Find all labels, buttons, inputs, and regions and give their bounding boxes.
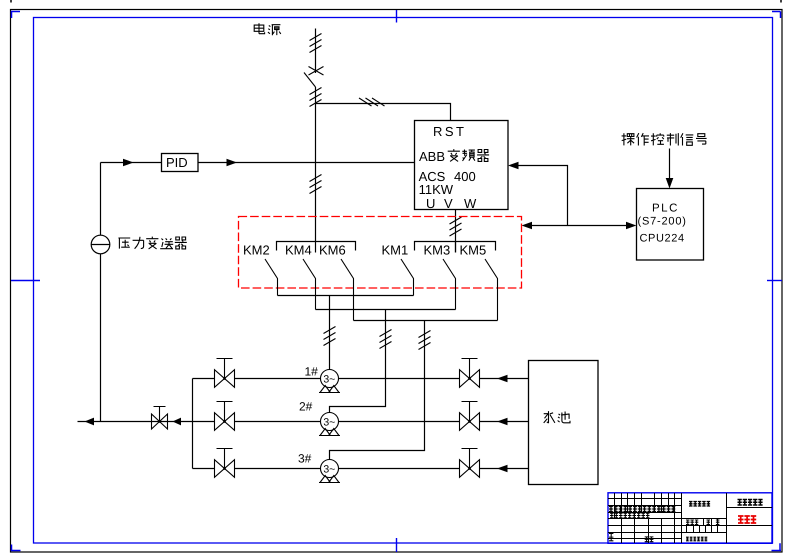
wire to pump3 motor	[330, 321, 425, 460]
pump 3 motor	[319, 460, 340, 483]
contactor KM1 contact	[401, 259, 414, 296]
PLC U2 box	[637, 189, 704, 261]
bus pump3	[354, 320, 498, 322]
water tank	[529, 361, 599, 485]
inverter U1 box	[415, 121, 509, 210]
valve outlet	[152, 407, 168, 430]
wire control signal to PLC	[669, 149, 671, 181]
power feeder wire	[315, 29, 317, 253]
svg-text:ABB: ABB	[419, 149, 445, 164]
svg-text:RST: RST	[433, 124, 467, 139]
piping row2	[193, 421, 529, 423]
pump 2 motor	[319, 413, 340, 436]
svg-text:KM5: KM5	[460, 243, 487, 258]
pressure transmitter symbol	[91, 235, 110, 254]
svg-text:400: 400	[454, 169, 476, 184]
left col small text	[609, 534, 613, 541]
svg-text:KM2: KM2	[243, 243, 270, 258]
valve row1 right	[460, 359, 480, 388]
svg-text:(S7-200): (S7-200)	[638, 216, 687, 228]
3-phase hatch on feeder above dashed box	[310, 175, 322, 194]
svg-text:CPU224: CPU224	[640, 233, 685, 245]
bus pump1	[278, 295, 414, 297]
label 压力变送器	[118, 238, 130, 249]
stage mark cells text	[686, 520, 698, 525]
wire inverter output	[455, 210, 457, 253]
svg-text:KM4: KM4	[285, 243, 312, 258]
svg-text:KM6: KM6	[319, 243, 346, 258]
svg-text:KM3: KM3	[424, 243, 451, 258]
drawing number text	[738, 500, 763, 506]
3-phase hatch on feeder top	[310, 34, 322, 53]
corner mark top-right	[772, 12, 781, 19]
bracket feed KM3/KM5	[415, 242, 496, 253]
wire PID to inverter	[198, 162, 415, 164]
svg-text:PID: PID	[166, 155, 188, 170]
sheet count text	[686, 537, 707, 541]
svg-text:1#: 1#	[305, 365, 319, 379]
center tick left	[11, 280, 40, 282]
svg-text:3#: 3#	[298, 452, 312, 466]
wire feeder to inverter	[316, 104, 451, 121]
wire PLC to contactor group	[529, 225, 629, 227]
piping row3	[193, 468, 529, 470]
3-phase hatch on inverter output	[450, 217, 462, 236]
valve row2 right	[460, 402, 480, 431]
svg-text:11KW: 11KW	[419, 182, 454, 197]
corner mark bottom-right	[772, 543, 782, 550]
breaker QF blade	[304, 73, 316, 88]
contactor KM2 contact	[265, 259, 278, 296]
label 水池	[544, 411, 555, 423]
title block	[608, 493, 772, 544]
wire to pump1 motor	[329, 296, 331, 370]
company name text	[689, 502, 710, 507]
center tick top	[396, 10, 398, 23]
corner mark top-left	[12, 12, 21, 19]
label 电源 (power source)	[254, 23, 264, 33]
bus pump2	[316, 309, 456, 311]
valve row3 right	[460, 449, 480, 478]
manifold left	[192, 379, 194, 469]
wire transmitter to PID	[101, 162, 162, 164]
drawing title red text	[738, 516, 756, 523]
valve row3 left	[215, 449, 235, 478]
pump 1 motor	[319, 370, 340, 393]
svg-text:PLC: PLC	[652, 203, 679, 215]
contactor KM4 contact	[303, 259, 316, 310]
contactor KM3 contact	[443, 259, 456, 310]
edge tick marks	[11, 0, 781, 3]
wire to pump2 motor	[330, 310, 386, 413]
approval row text	[609, 507, 675, 512]
3-phase hatch below breaker	[310, 88, 322, 107]
svg-text:W: W	[464, 196, 477, 211]
3-phase hatch on horizontal wire	[359, 98, 385, 106]
bracket feed KM4/KM6	[277, 242, 356, 251]
PID controller box	[162, 154, 199, 172]
valve row1 left	[215, 359, 235, 388]
center tick right	[767, 280, 782, 282]
breaker QF cross	[309, 67, 324, 76]
contactor KM5 contact	[485, 259, 498, 321]
label 操作控制信号	[622, 133, 635, 145]
center tick bottom	[396, 538, 398, 552]
corner mark bottom-left	[12, 545, 21, 551]
wire PLC to inverter	[516, 166, 568, 226]
contactor group dashed enclosure	[239, 217, 522, 289]
pressure transmitter line	[100, 163, 102, 422]
flow arrows from tank	[497, 375, 508, 383]
valve row2 left	[215, 402, 235, 431]
piping row1	[193, 378, 529, 380]
svg-text:KM1: KM1	[382, 243, 409, 258]
outlet pipe	[78, 421, 193, 423]
svg-text:U: U	[426, 196, 435, 211]
svg-text:V: V	[444, 196, 453, 211]
svg-text:2#: 2#	[299, 400, 313, 414]
contactor KM6 contact	[341, 259, 354, 321]
